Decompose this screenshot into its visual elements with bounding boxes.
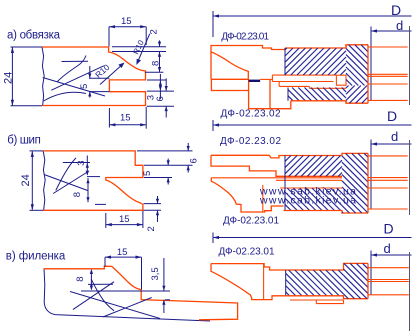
dim 15 C	[105, 257, 142, 289]
leader R10 upper	[137, 34, 150, 64]
A1 slot lines	[260, 75, 346, 88]
right edge extension line 2	[409, 140, 411, 215]
svg-text:8: 8	[150, 61, 161, 66]
wood grain symbol A: cross arm 1	[43, 78, 105, 97]
svg-text:2: 2	[146, 226, 157, 231]
wood grain symbol B: arc	[56, 158, 76, 191]
svg-text:D: D	[391, 2, 401, 18]
A3 nut right face	[367, 263, 369, 298]
dim 8 line	[159, 52, 161, 73]
right edge extension line 1	[409, 26, 411, 105]
A2 slot lines	[276, 180, 342, 188]
svg-text:3: 3	[76, 161, 87, 166]
dim 15 top arrows	[109, 25, 146, 28]
svg-text:15: 15	[117, 247, 128, 258]
svg-text:15: 15	[121, 16, 132, 27]
A3 body bottom edge	[284, 296, 368, 299]
profile C navy outline (unmachined)	[44, 268, 210, 321]
wood grain symbol B: horizontal stroke	[44, 158, 89, 194]
wood grain symbol C: cross arm 2	[73, 282, 114, 310]
wood grain symbol A: arc	[57, 56, 86, 83]
bottom extension line	[11, 105, 43, 107]
svg-text:www.cab.kiev.ua: www.cab.kiev.ua	[259, 195, 356, 207]
A3 lower shelf lines	[290, 300, 344, 304]
svg-text:15: 15	[119, 214, 130, 225]
svg-text:D: D	[384, 221, 394, 237]
svg-text:D: D	[387, 108, 397, 124]
A1 lower hatch left edge	[287, 88, 289, 101]
A1 upper hatch band	[285, 48, 346, 75]
profile C orange outline	[44, 266, 238, 320]
arrows of right dims A	[158, 42, 161, 47]
leader R10 lower	[100, 64, 124, 85]
A3 nut hatch	[344, 263, 369, 298]
wood grain symbol C: cross arm 1	[70, 292, 160, 319]
svg-text:5: 5	[79, 84, 90, 89]
svg-text:8: 8	[75, 277, 86, 282]
wood grain symbol C: horizontal stroke	[70, 279, 160, 319]
A2 knife right face	[262, 185, 264, 212]
svg-text:в) филенка: в) филенка	[6, 251, 66, 263]
dim 3 B	[63, 156, 90, 175]
svg-text:24: 24	[2, 72, 14, 84]
A2 shelf line	[211, 177, 342, 179]
A1 lower hatch band	[288, 88, 346, 101]
dim 6 line lower	[165, 106, 167, 117]
svg-text:24: 24	[20, 174, 32, 186]
svg-text:15: 15	[120, 113, 131, 124]
A2 lower hatch band	[285, 188, 342, 211]
dim 2 line	[159, 40, 161, 46]
A2 lower knife orange outline	[211, 178, 283, 212]
A2 upper hatch band	[285, 156, 342, 177]
A1 hub lines	[368, 47, 408, 100]
ext y=91.1	[147, 90, 174, 92]
A2 lower body bottom edge	[284, 211, 369, 214]
right side dims of profile A	[112, 40, 174, 117]
svg-text:2: 2	[149, 29, 160, 34]
ext y=80	[147, 79, 167, 81]
svg-text:а) обвязка: а) обвязка	[7, 30, 61, 42]
svg-text:d: d	[396, 18, 403, 33]
dim D 1	[213, 11, 412, 37]
A3 knife right face	[263, 264, 265, 300]
dim 24 line	[11, 48, 13, 106]
svg-text:3,5: 3,5	[150, 267, 161, 280]
svg-text:ДФ-02.23.01: ДФ-02.23.01	[221, 31, 269, 42]
dim 15 top: extension lines	[109, 27, 146, 47]
right edge extension line 3	[409, 252, 411, 331]
dim 15 top line	[109, 26, 146, 28]
break line left edge A	[42, 47, 44, 106]
dim 8 C	[81, 272, 170, 291]
top extension line B	[30, 150, 44, 152]
A2 nut hatch	[342, 153, 368, 213]
ext y=72.2	[145, 71, 164, 73]
ext y=51.5	[112, 51, 166, 53]
wood grain symbol B: cross arm 1	[44, 175, 88, 191]
ext y=46.8	[112, 46, 166, 48]
top extension line	[11, 46, 43, 48]
dim 6 B	[137, 143, 193, 173]
A2 hatch left edge	[284, 156, 286, 211]
A2 upper knife orange outline	[211, 153, 368, 176]
wood grain symbol C: arc	[91, 279, 114, 311]
A3 hatch left edge	[285, 270, 287, 296]
dim 15 bottom	[109, 107, 146, 129]
dim 2 B	[144, 196, 162, 222]
dim 3 line	[159, 74, 161, 99]
wood grain symbol C: cross arm 3	[103, 298, 152, 317]
svg-text:6: 6	[189, 158, 200, 163]
dim d 3	[371, 251, 412, 296]
svg-text:ДФ-02.23.01: ДФ-02.23.01	[219, 247, 275, 258]
A3 knife orange outline	[211, 263, 368, 299]
svg-text:6: 6	[155, 96, 166, 101]
A3 hatch band	[286, 270, 344, 296]
svg-text:ДФ-02.23.02: ДФ-02.23.02	[220, 136, 281, 147]
A2 nut right face	[367, 153, 369, 213]
A1 upper knife orange outline	[211, 45, 368, 80]
svg-text:б) шип: б) шип	[7, 135, 41, 147]
svg-text:d: d	[384, 241, 391, 256]
svg-text:ДФ-02.23.02: ДФ-02.23.02	[221, 109, 281, 120]
A1 lower body bottom edge	[291, 101, 368, 103]
wood grain symbol A: cross arm 2	[51, 66, 104, 90]
svg-text:ДФ-02.23.01: ДФ-02.23.01	[223, 215, 279, 226]
dim d 1	[371, 27, 412, 101]
dim d 2	[371, 140, 412, 210]
svg-text:8: 8	[72, 192, 83, 197]
A1 nut edges	[346, 45, 368, 103]
dim D 2	[213, 120, 412, 131]
wood grain symbol B: cross arm 2	[53, 171, 89, 194]
dim 3,5 C	[164, 258, 170, 313]
A1 upper hatch left edge	[284, 48, 286, 75]
dim 6 line upper	[165, 78, 167, 90]
A1 nut hatch lower	[346, 86, 368, 104]
dim 8 B	[87, 177, 106, 205]
wood grain symbol A: lower arc	[44, 92, 86, 101]
A1 lower knife orange outline	[211, 79, 290, 108]
dim 24 line B	[31, 151, 33, 209]
profile B orange outline	[43, 151, 143, 210]
dim 5 B	[144, 159, 172, 185]
svg-text:d: d	[391, 129, 398, 144]
ext y=106.3	[147, 105, 174, 107]
A3 hub lines	[368, 268, 409, 295]
break line left edge B	[43, 151, 45, 210]
bottom extension line B	[30, 209, 44, 211]
dim 24 arrows	[11, 47, 14, 106]
A1 knife edge thick bar	[249, 80, 261, 82]
wood grain symbol A: horizontal stroke	[43, 56, 105, 102]
profile A orange outline	[42, 47, 146, 106]
dim 5 (groove)	[89, 66, 109, 98]
dim D 3	[213, 233, 412, 244]
A2 hub lines	[368, 156, 408, 209]
A1 nut hatch upper	[346, 45, 368, 86]
A1 key rect	[336, 75, 346, 85]
dim 15 bottom B	[106, 211, 143, 228]
svg-text:5: 5	[142, 171, 153, 176]
